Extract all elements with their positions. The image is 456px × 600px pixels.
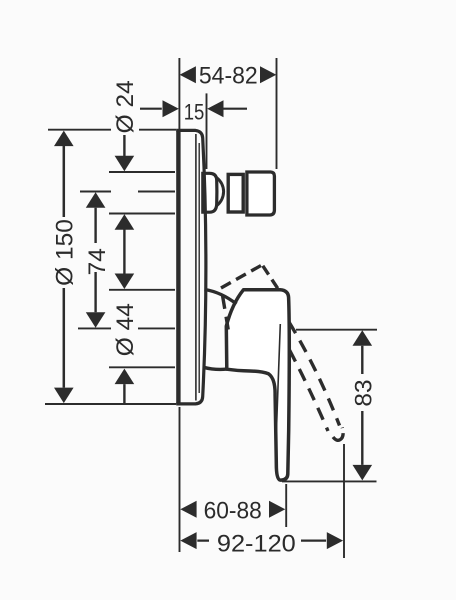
handle lever solid	[226, 290, 289, 480]
arrow Ø24 up (outside below)	[115, 214, 135, 230]
extension line spout top	[109, 171, 175, 173]
dim stem 74 column	[94, 208, 96, 313]
arrow 60-88 left	[180, 501, 196, 518]
plate back edge	[176, 131, 180, 404]
extension line spout bottom	[109, 213, 175, 215]
dashed grip end cap	[333, 428, 343, 441]
extension line 54-82 left	[178, 58, 180, 136]
svg-text:83: 83	[350, 379, 377, 406]
dashed lever raised: rising edge	[221, 266, 343, 441]
arrow Ø150 up	[54, 131, 74, 147]
extension line plate bottom	[45, 403, 176, 405]
dim stem Ø150 column	[63, 146, 66, 388]
extension line plate top	[48, 129, 176, 131]
spout ring	[228, 174, 243, 212]
arrow Ø44 up (outside below)	[115, 369, 135, 385]
extension line hub bottom	[109, 366, 175, 368]
dashed grip upper line	[289, 322, 340, 426]
svg-text:54-82: 54-82	[199, 62, 258, 90]
dashed grip lower line	[290, 350, 329, 431]
arrow 60-88 right	[269, 501, 285, 518]
arrow 74 up	[86, 192, 106, 208]
svg-text:74: 74	[84, 248, 111, 275]
label Ø24	[112, 80, 139, 133]
arrow 92-120 left	[180, 532, 196, 549]
extension line hub top	[109, 289, 175, 291]
dim stem 83 column	[361, 346, 363, 465]
svg-text:60-88: 60-88	[204, 498, 262, 525]
spout cone	[217, 178, 224, 206]
arrow Ø24 down	[115, 156, 135, 172]
label 83	[350, 379, 377, 406]
extension line 54-82 right	[276, 58, 278, 169]
label 15	[184, 100, 205, 125]
extension line bottom left	[179, 407, 181, 552]
dashed lever falling edge	[263, 266, 278, 289]
handle interior line	[276, 324, 281, 469]
svg-text:Ø 24: Ø 24	[112, 80, 139, 133]
plate outline top/front/bottom	[176, 130, 206, 404]
spout piece 1 (bellows)	[203, 172, 275, 215]
arrow 83 down	[353, 465, 373, 481]
svg-text:15: 15	[184, 100, 205, 125]
arrow 83 up	[353, 330, 373, 346]
label 74	[84, 248, 111, 275]
centerline spout axis	[80, 191, 175, 193]
extension line 92-120 right	[343, 444, 345, 558]
label Ø150	[51, 219, 78, 286]
arrow Ø150 down	[54, 388, 74, 404]
arrow 15 left	[163, 100, 179, 117]
plate thin inner line B	[198, 143, 200, 393]
label 54-82	[199, 62, 258, 90]
svg-text:Ø 44: Ø 44	[112, 303, 139, 356]
extension line 83 bottom / handle bottom	[282, 480, 377, 482]
label 60-88	[204, 498, 262, 525]
arrow 54-82 left	[180, 66, 196, 83]
dim stem Ø24/Ø44 column	[123, 135, 125, 404]
dim leader 15	[140, 108, 247, 110]
arrow 15 right	[207, 100, 223, 117]
label Ø44	[112, 303, 139, 356]
dashed lever left edge	[223, 296, 229, 330]
hub dome top arc	[205, 290, 237, 305]
extension line 83 top	[296, 329, 377, 331]
extension line 60-88 right	[285, 484, 287, 527]
svg-text:92-120: 92-120	[217, 530, 296, 558]
svg-text:Ø 150: Ø 150	[51, 219, 78, 286]
arrow 92-120 right	[327, 532, 343, 549]
arrow Ø44 down (outside above)	[115, 274, 135, 290]
plate thin inner line A	[195, 134, 197, 401]
spout end cap	[247, 172, 275, 215]
centerline hub axis	[78, 327, 175, 329]
hub dome bottom arc	[204, 367, 228, 369]
dim leader 92-120	[197, 539, 326, 541]
label 92-120	[217, 530, 296, 558]
arrow 74 down	[86, 312, 106, 328]
arrow 54-82 right	[260, 66, 276, 83]
extension line 15 right	[206, 93, 208, 169]
